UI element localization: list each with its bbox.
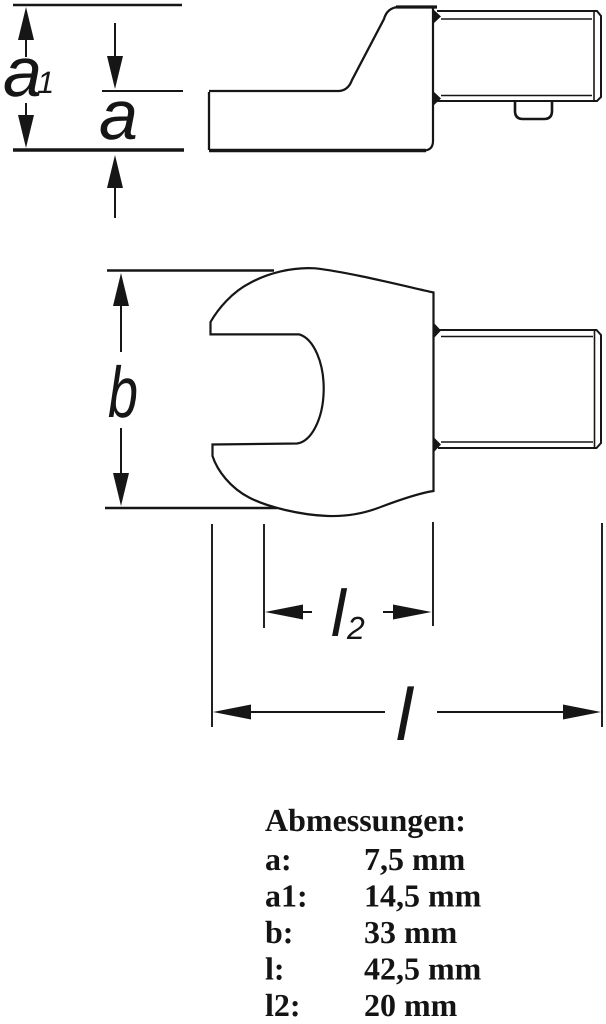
- svg-text:20 mm: 20 mm: [364, 987, 458, 1023]
- extension line left (l): [211, 524, 213, 727]
- extension line right (l): [601, 523, 603, 727]
- thick lower datum line (bottom of a / a1): [13, 148, 184, 152]
- label b: [108, 353, 138, 433]
- side view: shank inner chamfer top: [441, 18, 592, 20]
- l dimension left arrow: [213, 705, 251, 720]
- label a1: [3, 33, 54, 111]
- svg-text:2: 2: [346, 610, 365, 646]
- top view: neck wedge bottom: [434, 437, 442, 453]
- b dimension arrow down: [120, 428, 122, 475]
- svg-text:33 mm: 33 mm: [364, 914, 458, 950]
- l2 dimension right arrow: [383, 611, 395, 613]
- svg-text:l2:: l2:: [265, 987, 301, 1023]
- side view: shank inner chamfer bottom: [441, 95, 592, 97]
- label a: [99, 76, 138, 154]
- svg-text:1: 1: [37, 65, 54, 100]
- b dimension arrow up: [113, 273, 129, 306]
- label l: [396, 673, 415, 756]
- svg-text:42,5 mm: 42,5 mm: [364, 951, 482, 987]
- b top tick line: [107, 269, 274, 272]
- l2 dimension left arrow: [265, 605, 303, 620]
- dimension table: [265, 802, 482, 1023]
- side view: shank outer outline: [437, 11, 601, 101]
- svg-text:a: a: [99, 76, 138, 154]
- top view: shank inner chamfer top: [441, 336, 593, 338]
- extension line right (l2): [432, 522, 434, 626]
- svg-text:Abmessungen:: Abmessungen:: [265, 802, 466, 839]
- dimension arrow a up (below thick line): [107, 155, 123, 188]
- side view: shank inner chamfer right: [593, 12, 595, 100]
- top view: shank inner chamfer right: [594, 331, 596, 447]
- dimension arrow a1 up: [18, 7, 34, 40]
- top view: wrench head outline: [211, 268, 434, 516]
- side view: thick bottom line of body: [209, 149, 426, 153]
- svg-text:l: l: [331, 576, 348, 650]
- l dimension right arrow: [437, 711, 568, 713]
- side view: neck vertical: [425, 8, 433, 151]
- b bottom tick line: [105, 507, 277, 510]
- side view: neck wedge bottom: [433, 91, 441, 106]
- svg-text:b:: b:: [265, 914, 293, 950]
- svg-text:a:: a:: [265, 841, 292, 877]
- dimension arrow a1 down: [25, 103, 27, 118]
- side view: locking tab: [515, 102, 552, 119]
- top view: shank outer outline: [438, 330, 601, 448]
- top reference line (upper datum of a1): [13, 4, 182, 6]
- label l2: [331, 576, 365, 650]
- svg-text:a1:: a1:: [265, 878, 308, 914]
- svg-text:14,5 mm: 14,5 mm: [364, 878, 482, 914]
- dimension arrow a down (to short datum line): [114, 23, 116, 58]
- top view: neck wedge top: [434, 323, 442, 339]
- extension line left (l2): [263, 524, 265, 628]
- top view: shank inner chamfer bottom: [441, 441, 593, 443]
- short datum line of a: [102, 90, 183, 92]
- side view: neck wedge top: [433, 9, 441, 24]
- svg-text:7,5 mm: 7,5 mm: [364, 841, 466, 877]
- side view: tool body outline: [209, 7, 398, 150]
- svg-text:l: l: [396, 673, 415, 756]
- side view: thick top line of body: [396, 5, 437, 8]
- svg-text:l:: l:: [265, 951, 285, 987]
- svg-text:b: b: [108, 353, 138, 433]
